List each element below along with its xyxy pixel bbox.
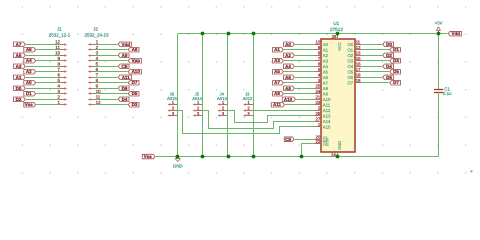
wire U1 O4 to net D4 [362,66,383,68]
U1 pin 16 O4 [347,61,361,69]
net flag A4 at U1 [284,64,295,69]
svg-text:D6: D6 [122,86,128,91]
wire Vdd bus (top) [178,33,448,35]
J1 pin 3 [57,89,67,95]
wire Vdd to J5 pin 1 / J5 pin 3 to GND [202,34,204,157]
wire net A2 to U1 [295,55,315,57]
J1 pin 11 [55,45,67,51]
net flag D2 (J1 pin 2) [14,97,26,102]
net flag D1 (J1 pin 3) [24,91,36,96]
J2 pin 8 [88,78,99,84]
svg-text:15: 15 [356,56,361,61]
net flag A6 (J1 pin 11) [24,47,36,52]
J2 pin 3 [88,50,99,57]
U1 pin 18 O6 [347,72,361,80]
svg-text:10: 10 [55,50,61,55]
wire Vss / GND bus (bottom) [156,156,439,158]
wire net A1 to J1 pin 6 [26,77,61,79]
svg-text:A7: A7 [274,80,280,85]
svg-text:16: 16 [356,61,361,66]
net flag A0 (J1 pin 5) [24,80,36,85]
svg-text:D0: D0 [16,86,22,91]
wire U1 O7 to net D7 [362,82,390,84]
net flag Vpp (J2 pin 4) [128,58,141,63]
wire C1 to GND bus [438,93,440,157]
net flag D3 (J2 pin 12) [128,102,139,107]
J1 pin 9 [57,56,67,62]
svg-text:D3: D3 [393,58,399,63]
wire U1 O3 to net D3 [362,60,390,62]
svg-text:A4: A4 [323,64,329,69]
net flag A2 at U1 [284,53,295,58]
net flag D6 [383,75,394,80]
svg-text:26: 26 [316,111,321,116]
net flag D4 [383,64,394,69]
svg-text:D4: D4 [122,97,128,102]
jumper J4 A013 [217,92,228,117]
svg-text:CE: CE [285,137,291,142]
svg-text:A3: A3 [274,58,280,63]
junction at (253,34) [252,32,256,36]
J2 pin 2 [88,45,99,51]
wire net A3 to J1 pin 8 [26,66,61,68]
wire J2 pin 9 to net D6 [95,88,118,90]
junction at (228,157) [227,155,231,159]
wire U1 O0 to net D0 [362,44,383,46]
svg-text:A6: A6 [285,75,291,80]
power symbol +5V [435,21,443,34]
svg-text:A8: A8 [323,86,329,91]
svg-text:A9: A9 [323,91,329,96]
net flag D6 (J2 pin 9) [118,86,129,91]
junction at (438,34) [437,32,441,36]
connector J1 reference and value 2532_12-1 [49,27,71,38]
svg-text:A5: A5 [274,69,280,74]
svg-text:27512: 27512 [330,27,343,32]
J2 pin 10 [88,89,101,95]
U1 pin 15 O3 [347,56,361,64]
wire U1 O2 to net D2 [362,55,383,57]
wire net A11 to U1 [285,104,314,106]
wire net A7 to J1 pin 12 [26,44,61,46]
svg-text:D0: D0 [386,42,392,47]
svg-text:D7: D7 [132,80,138,85]
svg-text:0.1u: 0.1u [443,91,452,96]
svg-text:D1: D1 [393,47,399,52]
U1 pin 7 A3 [315,56,329,64]
net flag D7 (J2 pin 8) [128,80,139,85]
U1 pin 26 A13 [315,111,332,119]
net flag A9 at U1 [273,91,284,96]
U1 pin 5 A5 [315,67,329,75]
U1 pin 8 A2 [315,50,329,58]
junction at (178,157) [176,155,180,159]
svg-text:A6: A6 [323,75,329,80]
svg-text:A5: A5 [323,69,329,74]
wire net A8 to U1 [295,88,315,90]
svg-text:A9: A9 [274,91,280,96]
svg-text:A7: A7 [323,80,329,85]
J1 pin 6 [57,72,67,79]
J2 pin 5 [88,61,99,68]
wire net Vss to J1 pin 1 [36,104,60,106]
svg-text:A0: A0 [26,80,32,85]
J2 pin 6 [88,67,99,73]
net flag A7 at U1 [273,80,284,85]
svg-text:D1: D1 [26,91,32,96]
svg-text:23: 23 [316,100,321,105]
J1 pin 4 [57,83,67,90]
connector J2 reference and value 2532_24-13 [84,27,109,38]
net flag A6 at U1 [284,75,295,80]
net flag A3 at U1 [273,58,284,63]
wire U1 O5 to net D5 [362,71,390,73]
wire U1 O1 to net D1 [362,49,390,51]
svg-text:U1: U1 [333,21,339,26]
svg-text:A11: A11 [323,102,331,107]
svg-text:D2: D2 [16,97,22,102]
junction at (203,34) [201,32,205,36]
svg-text:D2: D2 [386,53,392,58]
svg-text:Vdd: Vdd [121,42,130,47]
svg-text:2532_12-1: 2532_12-1 [49,33,71,38]
svg-text:22: 22 [316,139,321,144]
svg-text:27: 27 [316,116,321,121]
svg-text:J1: J1 [57,27,62,32]
U1 value 27512 [330,27,343,32]
svg-text:D7: D7 [393,80,399,85]
U1 pin 28 VCC (top) [332,34,342,51]
J2 pin 9 [88,83,99,90]
wire net A4 to U1 [295,66,315,68]
net flag D0 [383,42,394,47]
svg-text:28: 28 [332,34,337,39]
svg-text:O5: O5 [347,69,353,74]
U1 pin 3 A7 [315,78,329,86]
J2 pin 11 [88,94,101,101]
IC U1 27512 EPROM body [321,39,355,152]
wire net A9 to U1 [284,93,315,95]
svg-text:D5: D5 [132,91,138,96]
net flag D5 [390,69,401,74]
wire Vdd to J3 pin 1 / J3 pin 3 to GND [253,34,255,157]
wire J3 pin 2 to U1 A12 [253,110,314,112]
svg-text:A8: A8 [285,86,291,91]
U1 pin 24 A9 [315,89,329,97]
svg-text:A9: A9 [122,53,128,58]
svg-text:Vpp: Vpp [131,58,140,63]
net flag A9 (J2 pin 3) [118,53,129,58]
net flag CE (J2 pin 5) [118,64,129,69]
svg-text:D4: D4 [386,64,392,69]
net flag A2 (J1 pin 7) [24,69,36,74]
net flag D3 [390,58,401,63]
J1 pin 8 [57,61,67,68]
net flag Vss (J1 pin 1) [24,102,36,107]
wire net D1 to J1 pin 3 [36,93,60,95]
wire J2 pin 6 to net A10 [95,71,128,73]
svg-text:A1: A1 [274,47,280,52]
svg-text:A0: A0 [323,42,329,47]
wire net A5 to J1 pin 10 [26,55,61,57]
J1 pin 2 [57,94,67,101]
wire net A0 to U1 [295,44,315,46]
ground symbol GND [173,157,183,169]
svg-text:A1: A1 [16,75,22,80]
wire net A0 to J1 pin 5 [36,82,60,84]
svg-text:Vss: Vss [144,154,153,159]
svg-text:D3: D3 [132,102,138,107]
svg-text:OE: OE [323,141,329,146]
U1 pin 25 A8 [315,83,329,91]
net flag A8 at U1 [284,86,295,91]
J1 pin 7 [57,67,67,73]
J1 pin 1 [57,100,67,106]
svg-text:A11: A11 [122,75,131,80]
junction at (302,157) [300,155,304,159]
net flag A11 at U1 [271,102,284,107]
svg-text:A14: A14 [323,119,331,124]
svg-text:A12: A12 [323,108,331,113]
svg-text:O1: O1 [347,47,353,52]
wire J5 pin 2 to U1 A14 [203,111,315,129]
junction at (203,157) [201,155,205,159]
net flag Vdd (J2 pin 1) [118,42,131,47]
svg-text:A11: A11 [273,102,282,107]
U1 pin 14 GND (bottom) [331,141,342,157]
svg-text:Vdd: Vdd [451,31,460,36]
U1 pin 23 A11 [315,100,331,108]
svg-text:+5V: +5V [435,21,443,26]
svg-text:2532_24-13: 2532_24-13 [84,33,109,38]
wire J6 pin 2 to U1 A15 [178,111,315,134]
U1 pin 13 O2 [347,50,361,58]
U1 pin 27 A14 [315,116,332,124]
junction at (253,157) [252,155,256,159]
wire net A5 to U1 [284,71,315,73]
wire U1 O6 to net D6 [362,77,383,79]
svg-text:O2: O2 [347,53,353,58]
svg-text:O0: O0 [347,42,353,47]
svg-text:A1: A1 [323,47,329,52]
wire net A1 to U1 [284,49,315,51]
svg-text:O6: O6 [347,75,353,80]
svg-text:A0: A0 [285,42,291,47]
wire J4 pin 2 to U1 A13 [228,111,315,123]
net flag CE at U1 [284,137,294,142]
wire net D2 to J1 pin 2 [26,99,61,101]
wire net A7 to U1 [284,82,315,84]
U1 pin 22 OE [315,139,330,147]
wire J2 pin 4 to net Vpp [95,60,128,62]
svg-text:18: 18 [356,72,361,77]
net flag A5 at U1 [273,69,284,74]
net flag A5 (J1 pin 10) [14,53,26,58]
svg-text:J2: J2 [93,27,98,32]
wire Vdd to J6 pin 1 / J6 pin 3 to GND [177,34,179,157]
svg-text:A2: A2 [26,69,32,74]
net flag D0 (J1 pin 4) [14,86,26,91]
J1 pin 5 [57,78,67,84]
wire J2 pin 10 to net D5 [95,93,128,95]
svg-text:A10: A10 [284,97,293,102]
svg-text:A2: A2 [285,53,291,58]
net flag D2 [383,53,394,58]
svg-text:O3: O3 [347,58,353,63]
svg-text:25: 25 [316,83,321,88]
U1 pin 19 O7 [347,78,361,86]
net flag A7 (J1 pin 12) [14,42,26,47]
svg-text:19: 19 [356,78,361,83]
wire net D0 to J1 pin 4 [26,88,61,90]
svg-text:11: 11 [356,39,361,44]
J2 pin 7 [88,72,99,79]
U1 pin 10 A0 [315,39,329,47]
net flag A1 (J1 pin 6) [14,75,26,80]
net flag D4 (J2 pin 11) [118,97,129,102]
wire net A10 to U1 [296,99,314,101]
svg-text:D6: D6 [386,75,392,80]
wire J2 pin 11 to net D4 [95,99,118,101]
svg-text:CE: CE [121,64,127,69]
svg-text:VCC: VCC [337,42,342,51]
junction at (228,34) [227,32,231,36]
net flag A10 at U1 [282,97,295,102]
junction at (338,34) [336,32,340,36]
svg-text:11: 11 [55,45,60,50]
wire net CE to U1 pin 20 [295,139,315,141]
svg-text:A13: A13 [323,113,331,118]
svg-text:O4: O4 [347,64,353,69]
svg-text:A2: A2 [323,53,329,58]
jumper J5 A014 [192,92,203,117]
net flag D7 [390,80,401,85]
svg-text:A7: A7 [16,42,22,47]
svg-text:A3: A3 [16,64,22,69]
svg-text:21: 21 [316,94,321,99]
U1 pin 2 A12 [315,105,332,113]
J1 pin 12 [55,39,67,46]
net flag Vdd (top right) [448,31,461,36]
wire net A4 to J1 pin 9 [36,60,60,62]
svg-text:12: 12 [55,39,61,44]
jumper J6 A015 [167,92,178,117]
U1 reference designator [333,21,339,26]
svg-text:A6: A6 [26,47,32,52]
net flag A11 (J2 pin 7) [118,75,131,80]
U1 pin 1 A15 [315,122,332,130]
wire J2 pin 8 to net D7 [95,82,128,84]
J2 pin 4 [88,56,99,62]
J2 pin 12 [88,100,101,106]
J1 pin 10 [55,50,67,57]
junction at (338,157) [336,155,340,159]
wire Vdd to J4 pin 1 / J4 pin 3 to GND [227,34,229,157]
svg-text:GND: GND [337,141,342,150]
net flag D5 (J2 pin 10) [128,91,139,96]
U1 pin 17 O5 [347,67,361,75]
svg-text:11: 11 [96,94,101,99]
wire J2 pin 5 to net CE [95,66,118,68]
svg-text:A10: A10 [132,69,141,74]
svg-text:A4: A4 [26,58,32,63]
net flag A0 at U1 [284,42,295,47]
net flag D1 [390,47,401,52]
svg-text:GND: GND [173,163,183,168]
svg-text:13: 13 [356,50,361,55]
U1 pin 20 CE [315,134,329,142]
net flag Vss (bottom left) [142,154,155,159]
svg-text:A10: A10 [323,97,331,102]
wire J2 pin 12 to net D3 [95,104,128,106]
wire net A2 to J1 pin 7 [36,71,60,73]
svg-text:12: 12 [356,45,361,50]
net flag A10 (J2 pin 6) [128,69,141,74]
net flag A4 (J1 pin 9) [24,58,36,63]
U1 pin 12 O1 [347,45,361,53]
net flag A1 at U1 [273,47,284,52]
wire J2 pin 1 to net Vdd [95,44,118,46]
wire net A3 to U1 [284,60,315,62]
U1 pin 4 A6 [315,72,329,80]
svg-text:A15: A15 [323,124,331,129]
svg-text:A5: A5 [16,53,22,58]
net flag A3 (J1 pin 8) [14,64,26,69]
U1 pin 9 A1 [315,45,329,53]
U1 pin 11 O0 [347,39,361,47]
wire Vdd to C1 [438,34,440,89]
wire net A6 to U1 [295,77,315,79]
svg-text:24: 24 [316,89,321,94]
U1 pin 21 A10 [315,94,332,102]
wire net A6 to J1 pin 11 [36,49,60,51]
J2 pin 1 [88,39,99,46]
svg-text:A8: A8 [132,47,138,52]
net flag A8 (J2 pin 2) [128,47,139,52]
U1 pin 6 A4 [315,61,329,69]
svg-text:A3: A3 [323,58,329,63]
jumper J3 A012 [243,92,254,117]
wire U1 pin 22 OE to GND bus [302,144,315,157]
svg-text:A4: A4 [285,64,291,69]
capacitor C1 0.1u [434,86,452,96]
svg-text:D5: D5 [393,69,399,74]
svg-text:10: 10 [316,39,321,44]
wire J2 pin 7 to net A11 [95,77,118,79]
svg-text:Vss: Vss [25,102,34,107]
wire J2 pin 3 to net A9 [95,55,118,57]
wire J2 pin 2 to net A8 [95,49,128,51]
svg-text:O7: O7 [347,80,353,85]
svg-text:17: 17 [356,67,361,72]
